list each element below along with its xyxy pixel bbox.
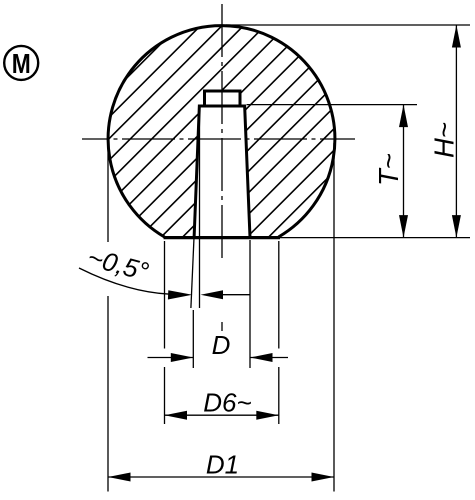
extension line hole top (T) xyxy=(247,104,418,106)
angle right arrow xyxy=(221,294,250,296)
angle leader arc xyxy=(79,268,170,294)
dimension D line xyxy=(148,357,194,359)
extension line D6 right xyxy=(278,241,280,349)
extension line D1 left upper xyxy=(107,143,109,242)
extension line D6 left xyxy=(164,241,166,349)
extension line D right xyxy=(249,240,251,368)
taper slant extension line xyxy=(191,238,194,308)
dimension D6 line xyxy=(165,414,279,416)
hatching xyxy=(0,10,475,250)
extension line D1 right xyxy=(333,143,335,492)
svg-text:~0,5°: ~0,5° xyxy=(84,242,151,287)
dimension H line xyxy=(455,25,457,238)
dimension D1 line xyxy=(108,476,334,478)
counterbore rect fill xyxy=(205,91,241,106)
ball flat bottom xyxy=(164,236,281,239)
ball outline xyxy=(108,26,335,237)
svg-text:H~: H~ xyxy=(429,122,460,158)
svg-text:D1: D1 xyxy=(206,450,239,480)
svg-text:D: D xyxy=(212,330,231,360)
tapered hole (white fill) xyxy=(194,106,250,238)
extension line top (H) xyxy=(226,24,470,26)
svg-text:M: M xyxy=(12,48,31,79)
M symbol circle xyxy=(4,46,38,80)
vertical centerline short dash xyxy=(221,322,223,331)
dimension T line xyxy=(403,105,405,238)
svg-text:T~: T~ xyxy=(373,153,404,186)
taper vertical reference line xyxy=(199,110,201,308)
vertical centerline xyxy=(221,4,223,260)
extension line D left xyxy=(192,310,194,368)
extension line bottom flat xyxy=(280,237,470,239)
horizontal centerline xyxy=(82,138,355,140)
svg-text:D6~: D6~ xyxy=(203,388,251,418)
counterbore outline xyxy=(205,91,241,106)
hole outline xyxy=(194,106,250,239)
extension line D1 left lower xyxy=(107,296,109,492)
